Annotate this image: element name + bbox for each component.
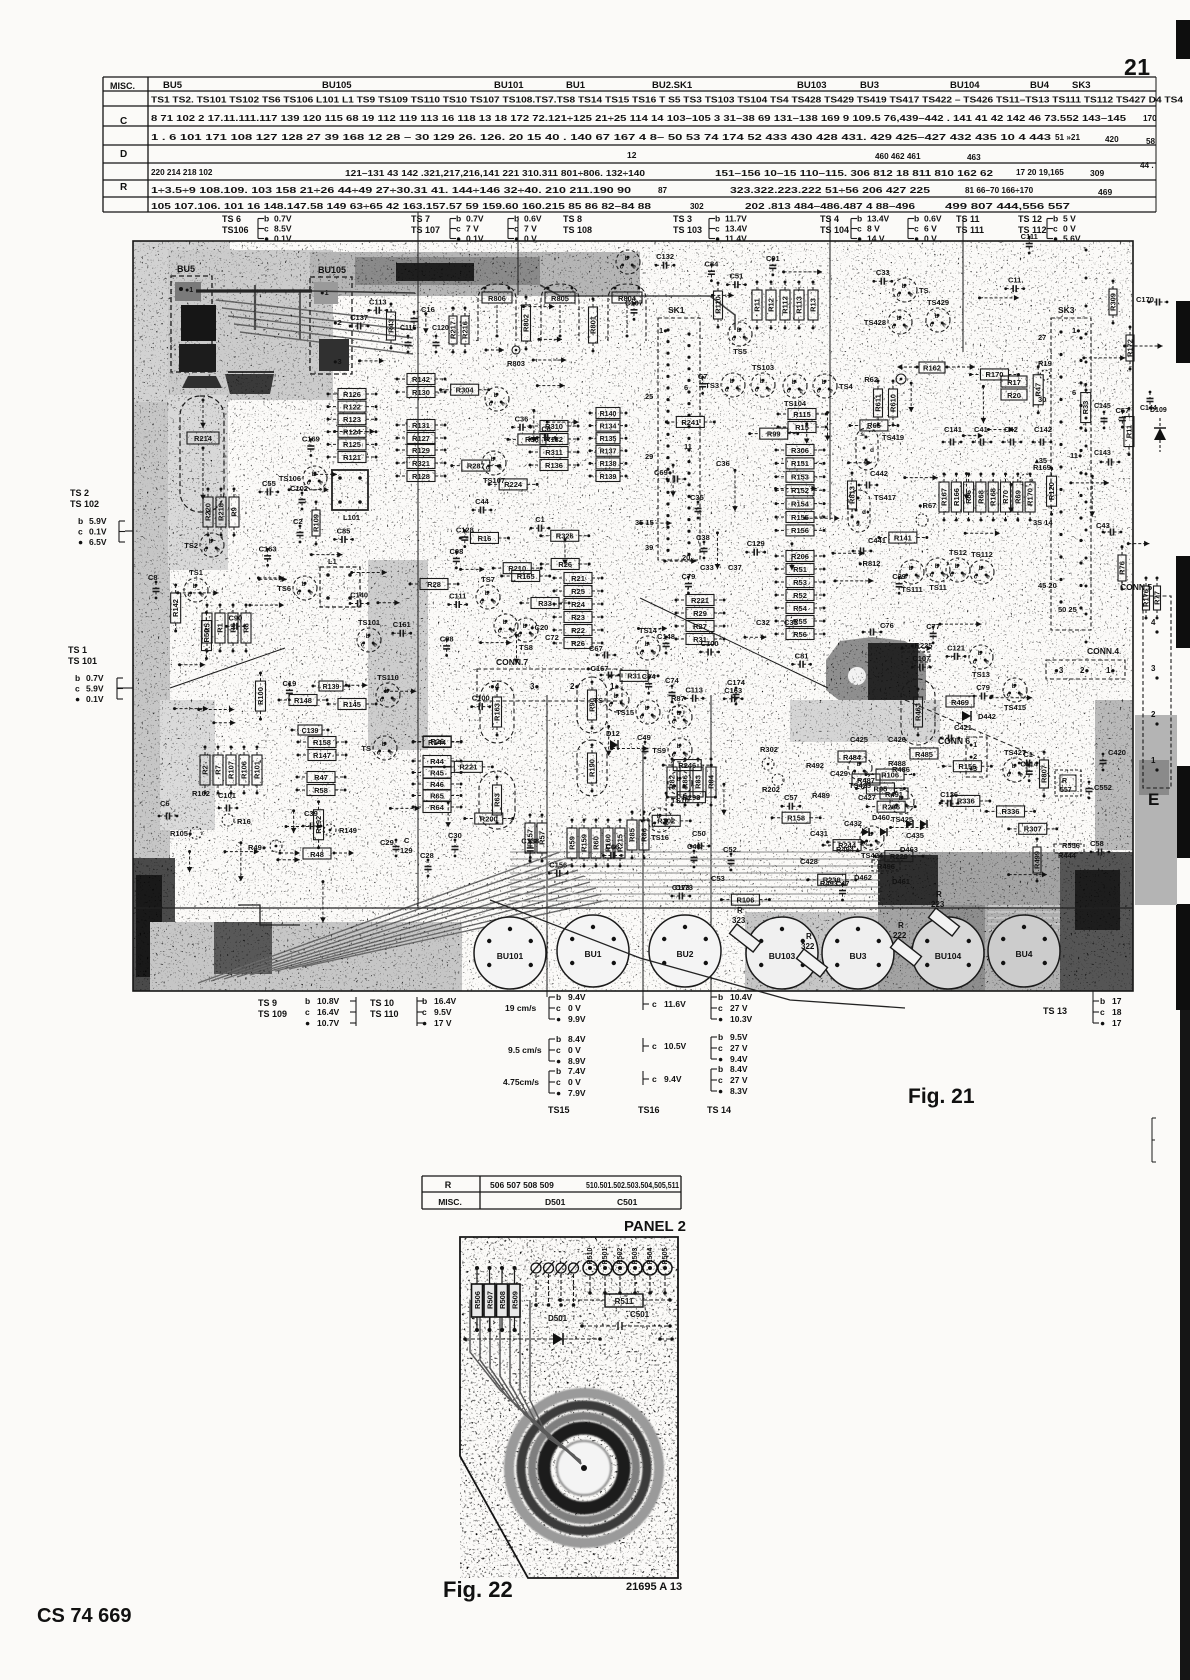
svg-text:R496: R496 — [877, 862, 895, 871]
svg-text:TS417: TS417 — [874, 493, 896, 502]
svg-text:c: c — [305, 1007, 310, 1017]
svg-text:R2: R2 — [201, 765, 210, 775]
svg-text:R168: R168 — [989, 488, 998, 506]
svg-text:R47: R47 — [1034, 383, 1043, 397]
svg-text:TS 108: TS 108 — [563, 225, 592, 235]
svg-text:c: c — [75, 684, 80, 694]
svg-text:BU105: BU105 — [318, 265, 346, 275]
svg-text:R11: R11 — [1124, 425, 1133, 438]
svg-text:L1: L1 — [328, 557, 337, 566]
svg-text:8.4V: 8.4V — [568, 1034, 586, 1044]
svg-text:C: C — [404, 836, 410, 845]
svg-text:C33: C33 — [700, 563, 714, 572]
svg-text:302: 302 — [690, 202, 704, 211]
svg-text:R151: R151 — [791, 459, 809, 468]
svg-text:C111: C111 — [449, 591, 466, 600]
svg-text:C148: C148 — [657, 632, 675, 641]
svg-text:R85: R85 — [628, 828, 637, 842]
svg-text:C100: C100 — [701, 639, 719, 648]
svg-text:b: b — [78, 516, 83, 526]
svg-text:C139: C139 — [302, 728, 319, 735]
svg-text:R: R — [737, 906, 743, 915]
svg-text:C91: C91 — [766, 254, 780, 263]
svg-text:R149: R149 — [339, 826, 357, 835]
svg-text:BU103: BU103 — [797, 80, 827, 91]
svg-text:●: ● — [556, 1056, 561, 1066]
svg-text:e: e — [942, 572, 946, 579]
svg-text:TS 13: TS 13 — [1043, 1006, 1067, 1016]
svg-text:b: b — [677, 743, 681, 750]
svg-text:d: d — [870, 447, 874, 454]
svg-text:0 V: 0 V — [568, 1045, 581, 1055]
svg-text:R65: R65 — [430, 791, 444, 800]
svg-text:50 25: 50 25 — [1058, 605, 1077, 614]
svg-text:R807: R807 — [1040, 765, 1049, 783]
svg-text:44 .: 44 . — [1140, 161, 1154, 170]
svg-text:16.4V: 16.4V — [434, 996, 457, 1006]
svg-text:BU103: BU103 — [769, 951, 796, 961]
svg-text:R499: R499 — [1033, 851, 1042, 869]
svg-text:●1: ●1 — [320, 288, 329, 297]
svg-text:463: 463 — [967, 153, 981, 162]
svg-text:13.4V: 13.4V — [867, 214, 890, 224]
svg-text:C113: C113 — [685, 685, 703, 694]
svg-text:e: e — [985, 659, 989, 666]
svg-text:R266: R266 — [882, 802, 900, 811]
svg-text:b: b — [677, 776, 681, 783]
svg-text:b: b — [485, 590, 489, 597]
svg-text:R63: R63 — [493, 793, 502, 807]
svg-text:c: c — [652, 1074, 657, 1084]
svg-text:C126: C126 — [940, 790, 958, 799]
svg-text:c: c — [715, 224, 720, 234]
svg-text:C36: C36 — [716, 459, 730, 468]
svg-text:R287: R287 — [467, 461, 485, 470]
svg-text:e: e — [744, 336, 748, 343]
svg-text:BU1: BU1 — [566, 80, 586, 91]
svg-text:R26: R26 — [558, 560, 572, 569]
svg-text:BU5: BU5 — [177, 264, 195, 274]
svg-text:18: 18 — [1112, 1007, 1122, 1017]
svg-text:c: c — [307, 480, 311, 487]
svg-text:c: c — [204, 547, 208, 554]
svg-text:R45: R45 — [430, 768, 444, 777]
svg-text:510.501.502.503.504,505,511: 510.501.502.503.504,505,511 — [586, 1181, 679, 1190]
svg-text:TS16: TS16 — [651, 833, 669, 842]
svg-text:C50: C50 — [692, 829, 706, 838]
svg-text:c: c — [672, 719, 676, 726]
svg-text:C420: C420 — [1108, 748, 1126, 757]
svg-text:R488: R488 — [888, 759, 906, 768]
svg-text:C426: C426 — [888, 735, 906, 744]
svg-text:b: b — [645, 641, 649, 648]
svg-text:R65: R65 — [867, 421, 881, 430]
svg-text:C47: C47 — [836, 879, 850, 888]
svg-text:81 66–70 166÷170: 81 66–70 166÷170 — [965, 186, 1034, 195]
svg-text:R1: R1 — [216, 623, 225, 633]
svg-text:C441: C441 — [868, 536, 886, 545]
svg-text:TS111: TS111 — [901, 585, 922, 594]
svg-text:C76: C76 — [880, 621, 894, 630]
svg-text:s: s — [860, 431, 864, 438]
svg-text:●: ● — [718, 1054, 723, 1064]
svg-text:C29: C29 — [892, 572, 906, 581]
svg-text:17 V: 17 V — [434, 1018, 452, 1028]
svg-text:BU101: BU101 — [494, 80, 524, 91]
svg-text:R136: R136 — [545, 461, 563, 470]
svg-text:3S 14: 3S 14 — [1033, 518, 1053, 527]
svg-text:0.7V: 0.7V — [274, 214, 292, 224]
svg-text:R53: R53 — [793, 578, 807, 587]
svg-text:C425: C425 — [850, 735, 868, 744]
svg-text:R802: R802 — [522, 314, 531, 332]
svg-text:R122: R122 — [343, 402, 361, 411]
svg-text:C121: C121 — [947, 643, 965, 652]
svg-text:0.6V: 0.6V — [524, 214, 542, 224]
svg-text:R54: R54 — [793, 604, 808, 613]
svg-text:R47: R47 — [314, 773, 328, 782]
svg-text:e: e — [319, 480, 323, 487]
svg-text:●C167: ●C167 — [586, 664, 608, 673]
svg-text:R68: R68 — [976, 490, 985, 504]
svg-text:TS 9: TS 9 — [258, 998, 277, 1008]
svg-text:7 V: 7 V — [466, 224, 479, 234]
svg-text:TS 6: TS 6 — [222, 214, 241, 224]
svg-text:c: c — [930, 322, 934, 329]
svg-text:C52: C52 — [723, 845, 737, 854]
svg-text:c: c — [718, 1075, 723, 1085]
svg-text:C66: C66 — [606, 842, 620, 851]
svg-text:e: e — [392, 697, 396, 704]
svg-text:R145: R145 — [343, 700, 361, 709]
svg-text:R217: R217 — [449, 321, 458, 339]
svg-text:R147: R147 — [313, 751, 331, 760]
svg-text:b: b — [718, 992, 723, 1002]
svg-text:e: e — [632, 264, 636, 271]
svg-text:R813: R813 — [848, 486, 857, 504]
svg-text:R17: R17 — [1007, 378, 1021, 387]
svg-text:R139: R139 — [600, 474, 617, 481]
svg-text:c: c — [498, 628, 502, 635]
svg-text:10.8V: 10.8V — [317, 996, 340, 1006]
svg-text:b: b — [978, 650, 982, 657]
svg-text:R246: R246 — [678, 761, 696, 770]
svg-text:TS 101: TS 101 — [68, 656, 97, 666]
svg-text:121–131 43 142 .321,217,216: 121–131 43 142 .321,217,216,141 221 310.… — [345, 169, 646, 178]
svg-text:R125: R125 — [343, 440, 361, 449]
svg-text:0.6V: 0.6V — [924, 214, 942, 224]
svg-text:R62: R62 — [864, 375, 878, 384]
svg-text:C32: C32 — [756, 618, 770, 627]
svg-text:●: ● — [75, 694, 80, 704]
svg-text:R801: R801 — [589, 316, 598, 334]
svg-text:27 V: 27 V — [730, 1043, 748, 1053]
svg-text:●: ● — [718, 1086, 723, 1096]
svg-text:R156: R156 — [791, 526, 809, 535]
svg-text:9.5V: 9.5V — [730, 1032, 748, 1042]
svg-text:b: b — [979, 565, 983, 572]
svg-text:c: c — [297, 590, 301, 597]
svg-text:R107: R107 — [227, 761, 236, 779]
svg-text:TS101: TS101 — [358, 618, 380, 627]
svg-text:TS15: TS15 — [548, 1105, 570, 1115]
svg-text:R556: R556 — [1062, 841, 1080, 850]
svg-text:R142: R142 — [171, 599, 180, 617]
svg-text:105 107.106. 101 16: 105 107.106. 101 16 148.147.58 149 63÷65… — [151, 202, 652, 211]
svg-text:BU4: BU4 — [1030, 80, 1050, 91]
svg-text:R302: R302 — [760, 745, 778, 754]
svg-text:c: c — [556, 1045, 561, 1055]
svg-text:C421: C421 — [954, 723, 972, 732]
svg-text:R11: R11 — [753, 298, 762, 311]
svg-text:b: b — [366, 633, 370, 640]
svg-text:R507: R507 — [486, 1291, 495, 1309]
svg-text:C98: C98 — [449, 547, 463, 556]
svg-text:9.5V: 9.5V — [434, 1007, 452, 1017]
svg-text:R43: R43 — [387, 319, 396, 333]
svg-text:322: 322 — [801, 942, 815, 951]
svg-text:R504: R504 — [647, 1248, 654, 1265]
svg-text:b: b — [382, 741, 386, 748]
svg-text:e: e — [684, 752, 688, 759]
svg-text:b: b — [193, 583, 197, 590]
svg-text:R: R — [1062, 778, 1067, 785]
svg-text:R50: R50 — [202, 629, 211, 643]
svg-text:c: c — [1100, 1007, 1105, 1017]
svg-text:CS 74 669: CS 74 669 — [37, 1605, 132, 1627]
svg-text:19 cm/s: 19 cm/s — [505, 1003, 536, 1013]
svg-text:e: e — [652, 650, 656, 657]
svg-text:c: c — [1053, 224, 1058, 234]
svg-text:C161: C161 — [393, 620, 411, 629]
svg-text:TS15: TS15 — [616, 708, 634, 717]
svg-text:9.5 cm/s: 9.5 cm/s — [508, 1045, 542, 1055]
svg-text:R806: R806 — [488, 294, 506, 303]
svg-text:R105●: R105● — [170, 829, 192, 838]
svg-text:R805: R805 — [551, 294, 569, 303]
svg-text:6.5V: 6.5V — [89, 537, 107, 547]
svg-text:c: c — [930, 572, 934, 579]
svg-text:3●: 3● — [530, 682, 539, 691]
svg-text:b: b — [503, 619, 507, 626]
svg-text:C142: C142 — [1034, 425, 1052, 434]
svg-text:c: c — [718, 1003, 723, 1013]
svg-text:R311: R311 — [545, 448, 563, 457]
svg-text:TS4: TS4 — [839, 382, 854, 391]
svg-text:R158: R158 — [313, 738, 331, 747]
svg-text:TS 110: TS 110 — [370, 1009, 399, 1019]
svg-text:c: c — [897, 292, 901, 299]
svg-text:6 V: 6 V — [924, 224, 937, 234]
svg-text:MISC.: MISC. — [110, 81, 135, 91]
svg-text:R7: R7 — [214, 765, 223, 775]
svg-text:D501: D501 — [545, 1197, 566, 1207]
svg-text:9.9V: 9.9V — [568, 1014, 586, 1024]
svg-text:R170: R170 — [985, 370, 1003, 379]
svg-text:170: 170 — [1143, 114, 1157, 123]
svg-text:58: 58 — [1146, 137, 1156, 146]
svg-text:b: b — [302, 581, 306, 588]
svg-text:TS14: TS14 — [639, 626, 658, 635]
svg-text:C79: C79 — [976, 683, 990, 692]
svg-text:C107: C107 — [625, 298, 643, 307]
svg-text:R110: R110 — [714, 296, 723, 314]
svg-text:R9: R9 — [230, 507, 239, 517]
svg-text:c: c — [456, 224, 461, 234]
svg-text:R214: R214 — [194, 434, 213, 443]
svg-text:9.4V: 9.4V — [730, 1054, 748, 1064]
svg-text:C2: C2 — [293, 517, 303, 526]
svg-text:8 71 102 2 17.11.: 8 71 102 2 17.11.111.117 139 120 115 68 … — [151, 114, 1127, 123]
svg-text:R22: R22 — [571, 626, 585, 635]
svg-text:BU4: BU4 — [1015, 949, 1032, 959]
svg-text:C111: C111 — [1021, 232, 1038, 241]
svg-text:21695 A 13: 21695 A 13 — [626, 1581, 682, 1593]
svg-text:R492: R492 — [806, 761, 824, 770]
svg-text:C163: C163 — [724, 686, 742, 695]
svg-text:b: b — [614, 693, 618, 700]
svg-text:BU2.SK1: BU2.SK1 — [652, 80, 693, 91]
svg-text:TS1 TS2. TS101 TS102 TS6: TS1 TS2. TS101 TS102 TS6 TS106 L101 L1 T… — [151, 96, 1184, 105]
svg-text:R95: R95 — [874, 784, 888, 793]
svg-text:TS424: TS424 — [861, 851, 884, 860]
svg-text:c: c — [755, 387, 759, 394]
svg-text:C44: C44 — [475, 497, 490, 506]
svg-text:C81: C81 — [795, 651, 809, 660]
svg-text:TS7: TS7 — [481, 575, 495, 584]
svg-text:TS12: TS12 — [949, 548, 967, 557]
svg-text:TS8: TS8 — [519, 643, 533, 652]
svg-text:C6: C6 — [160, 799, 170, 808]
svg-text:c: c — [857, 224, 862, 234]
svg-text:TS106: TS106 — [279, 474, 301, 483]
svg-text:c: c — [620, 264, 624, 271]
svg-text:TS 102: TS 102 — [70, 499, 99, 509]
svg-text:1●: 1● — [659, 326, 668, 335]
svg-text:TS 107: TS 107 — [411, 225, 440, 235]
svg-text:45 20: 45 20 — [1038, 581, 1057, 590]
svg-text:C113: C113 — [369, 297, 387, 306]
svg-text:e: e — [1019, 772, 1023, 779]
svg-text:R155: R155 — [791, 513, 809, 522]
svg-text:TS 3: TS 3 — [673, 214, 692, 224]
svg-text:D12: D12 — [606, 729, 620, 738]
svg-text:R131: R131 — [412, 421, 430, 430]
svg-text:c: c — [380, 697, 384, 704]
svg-text:R336: R336 — [957, 797, 975, 806]
svg-text:c: c — [78, 527, 83, 537]
svg-text:c: c — [672, 752, 676, 759]
svg-text:c: c — [892, 324, 896, 331]
svg-text:C1: C1 — [535, 515, 545, 524]
svg-text:13.4V: 13.4V — [725, 224, 748, 234]
svg-text:R59: R59 — [568, 836, 577, 850]
svg-text:BU3: BU3 — [849, 951, 866, 961]
svg-text:R106: R106 — [240, 761, 249, 779]
svg-text:R16: R16 — [237, 817, 251, 826]
svg-text:R172: R172 — [1126, 339, 1135, 357]
svg-text:0 V: 0 V — [568, 1003, 581, 1013]
svg-text:10.3V: 10.3V — [730, 1014, 753, 1024]
svg-text:C84: C84 — [705, 260, 720, 269]
svg-text:c: c — [652, 999, 657, 1009]
svg-text:R76: R76 — [1118, 561, 1127, 575]
svg-text:TS 11: TS 11 — [956, 214, 980, 224]
svg-text:10.7V: 10.7V — [317, 1018, 340, 1028]
svg-text:c: c — [1007, 772, 1011, 779]
svg-text:R127: R127 — [412, 434, 430, 443]
svg-text:0.7V: 0.7V — [466, 214, 484, 224]
svg-text:C140: C140 — [350, 590, 368, 599]
svg-text:CONN.7: CONN.7 — [496, 657, 528, 667]
svg-text:R8: R8 — [242, 623, 251, 633]
svg-text:e: e — [684, 785, 688, 792]
svg-text:11.6V: 11.6V — [664, 999, 686, 1009]
svg-text:469: 469 — [1098, 187, 1112, 197]
svg-text:c: c — [264, 224, 269, 234]
svg-text:R166: R166 — [952, 488, 961, 506]
svg-text:●3: ●3 — [1054, 666, 1064, 675]
svg-text:202 .813 484–486.487 4 88–49: 202 .813 484–486.487 4 88–496 — [745, 202, 916, 211]
svg-text:R803: R803 — [507, 359, 525, 368]
svg-text:460 462 461: 460 462 461 — [875, 152, 921, 161]
svg-text:C100: C100 — [472, 694, 490, 703]
svg-text:TS 103: TS 103 — [673, 225, 702, 235]
svg-text:TS429: TS429 — [927, 298, 949, 307]
svg-text:b: b — [491, 456, 495, 463]
svg-text:C143: C143 — [1094, 450, 1111, 457]
svg-text:TS112: TS112 — [971, 550, 993, 559]
svg-text:C107: C107 — [912, 654, 930, 663]
svg-text:R56: R56 — [793, 630, 807, 639]
svg-text:R113: R113 — [795, 296, 804, 314]
svg-text:b: b — [897, 315, 901, 322]
svg-text:R128: R128 — [412, 472, 430, 481]
svg-text:e: e — [986, 574, 990, 581]
svg-text:TS 7: TS 7 — [411, 214, 430, 224]
svg-text:R218: R218 — [217, 503, 226, 521]
svg-text:C74: C74 — [665, 676, 680, 685]
svg-text:R502: R502 — [617, 1248, 624, 1265]
svg-text:c: c — [640, 650, 644, 657]
svg-text:R162: R162 — [923, 364, 941, 373]
svg-text:R229: R229 — [890, 852, 908, 861]
svg-text:e: e — [829, 388, 833, 395]
svg-text:1: 1 — [1151, 756, 1156, 765]
svg-text:E: E — [1148, 790, 1159, 809]
svg-text:6: 6 — [684, 383, 688, 392]
svg-text:R134: R134 — [600, 423, 617, 430]
svg-text:b: b — [909, 565, 913, 572]
svg-text:BU1: BU1 — [584, 949, 601, 959]
svg-text:R83: R83 — [694, 775, 703, 789]
svg-text:1 . 6 101 171 108 127: 1 . 6 101 171 108 127 128 27 39 168 12 2… — [151, 133, 1052, 142]
svg-text:4.75cm/s: 4.75cm/s — [503, 1077, 539, 1087]
svg-text:PANEL 2: PANEL 2 — [624, 1218, 686, 1235]
svg-text:c: c — [817, 388, 821, 395]
svg-text:TS5: TS5 — [733, 347, 747, 356]
svg-text:R505: R505 — [662, 1248, 669, 1265]
svg-text:R19: R19 — [1038, 359, 1052, 368]
svg-text:R135: R135 — [600, 436, 617, 443]
svg-text:BU104: BU104 — [935, 951, 962, 961]
svg-text:C128: C128 — [456, 526, 474, 535]
svg-text:e: e — [389, 750, 393, 757]
svg-text:e: e — [876, 840, 880, 847]
svg-text:C85: C85 — [337, 526, 351, 535]
svg-text:R216: R216 — [461, 321, 470, 339]
svg-text:e: e — [216, 547, 220, 554]
